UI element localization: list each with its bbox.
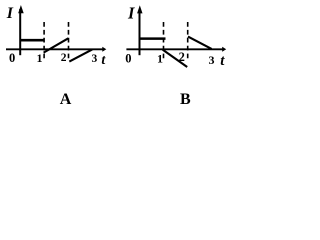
graph A: dashed line at t=1 <box>43 22 45 61</box>
graph B: x-axis <box>126 47 226 52</box>
svg-text:A: A <box>60 91 72 108</box>
svg-text:B: B <box>180 91 191 108</box>
svg-text:3: 3 <box>209 53 215 67</box>
graph B: current segment 0 to 1 (constant) <box>139 37 165 40</box>
svg-text:0: 0 <box>125 51 131 65</box>
graph A: dashed line at t=2 <box>68 22 70 61</box>
graph B: y-axis <box>137 5 142 55</box>
svg-text:1: 1 <box>37 51 43 65</box>
graph A: current segment 0 to 1 (constant) <box>20 39 44 42</box>
graph A: x-axis <box>6 47 106 52</box>
svg-text:2: 2 <box>61 52 67 64</box>
graph B: current ramp 2 to 3 <box>188 37 212 49</box>
svg-text:0: 0 <box>9 51 15 65</box>
svg-text:I: I <box>6 5 14 22</box>
graph B: dashed line at t=1 <box>163 22 165 61</box>
graph A: current ramp 2 to 3 <box>69 49 92 61</box>
svg-text:1: 1 <box>157 52 163 66</box>
graph A: y-axis <box>18 5 24 55</box>
svg-text:3: 3 <box>92 53 98 65</box>
svg-text:I: I <box>127 4 135 23</box>
graph B: dashed line at t=2 <box>187 22 189 61</box>
graph A: current ramp 1 to 2 <box>44 38 69 52</box>
graph B: current ramp 1 to 2 <box>163 50 188 67</box>
